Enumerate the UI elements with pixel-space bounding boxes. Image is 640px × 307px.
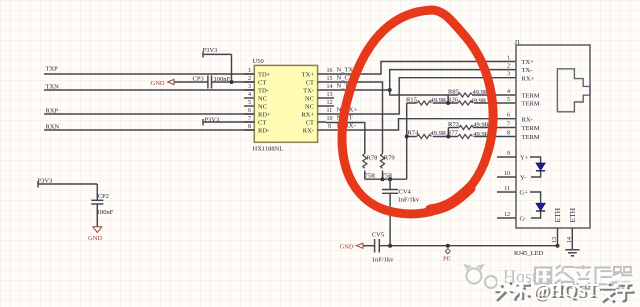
- wire R74 R77 rail to J1 pin8: [407, 136, 516, 138]
- svg-text:1nF/1kv: 1nF/1kv: [398, 196, 420, 203]
- svg-text:CT: CT: [306, 120, 314, 127]
- svg-text:G-: G-: [520, 216, 527, 223]
- svg-text:2: 2: [507, 64, 510, 70]
- watermark text CJK light wang-luo-bian-ya-qi: [535, 265, 634, 291]
- svg-text:4: 4: [248, 92, 251, 98]
- wire RXN: [44, 129, 254, 131]
- svg-text:P3V3: P3V3: [205, 116, 220, 123]
- annotation red circle: [342, 10, 493, 214]
- svg-text:R26: R26: [447, 97, 459, 104]
- svg-text:1: 1: [507, 56, 510, 62]
- resistor labels: [365, 89, 490, 264]
- U50 right pin numbers: [327, 68, 333, 130]
- svg-text:11: 11: [504, 186, 510, 192]
- svg-text:TD+: TD+: [258, 72, 271, 79]
- annotation red tail: [431, 188, 471, 210]
- svg-text:49.9R: 49.9R: [471, 98, 487, 105]
- diode LED yellow: [530, 157, 545, 177]
- svg-text:R74: R74: [407, 129, 419, 136]
- wire R15 R26 rail to J1 pin5: [407, 102, 516, 104]
- resistor R74: [417, 135, 432, 139]
- J1 pin numbers: [504, 56, 510, 219]
- svg-text:RD-: RD-: [258, 128, 269, 135]
- net labels right of U50: [337, 66, 358, 129]
- svg-text:TX-: TX-: [303, 88, 314, 95]
- J1 pin11 stub: [497, 191, 516, 193]
- svg-text:ETH: ETH: [568, 207, 577, 222]
- svg-text:9: 9: [507, 151, 510, 157]
- svg-text:7: 7: [507, 122, 510, 128]
- node x406 R74: [405, 135, 409, 139]
- ground GND arrow bottom-left: [93, 227, 102, 233]
- svg-text:TXP: TXP: [46, 66, 59, 73]
- U50 right pin names: [301, 72, 314, 135]
- svg-text:6: 6: [248, 108, 251, 114]
- glyph wen: [598, 281, 617, 301]
- J1 pin13 lead: [557, 228, 559, 246]
- node R79-bus: [381, 177, 385, 181]
- wire CP3 to pin2: [212, 81, 255, 83]
- svg-text:U50: U50: [253, 58, 264, 65]
- wire pin11 to railC: [326, 78, 516, 114]
- watermark logo cat: [466, 266, 499, 290]
- diode LED green: [530, 192, 545, 218]
- wire RXP: [44, 113, 254, 115]
- power P3V3 top wire: [203, 52, 232, 83]
- wire bottom bus: [365, 178, 407, 180]
- resistor R73: [459, 126, 474, 130]
- svg-text:12: 12: [327, 100, 333, 106]
- wire pin14 to railB: [326, 70, 516, 90]
- wire R78 bottom stub: [364, 171, 366, 180]
- J1 pin10 stub: [497, 176, 516, 178]
- svg-text:P3V3: P3V3: [38, 178, 53, 185]
- svg-text:RX+: RX+: [301, 112, 314, 119]
- J1 pin9 stub: [497, 156, 516, 158]
- connector J1 box: [516, 45, 590, 228]
- svg-text:NC: NC: [305, 104, 314, 111]
- wire pin9 to railD: [326, 119, 516, 130]
- svg-text:R73: R73: [448, 121, 459, 128]
- svg-text:RXP: RXP: [46, 108, 59, 115]
- svg-text:R78: R78: [367, 155, 378, 162]
- svg-text:TX-: TX-: [522, 67, 533, 74]
- svg-text:14: 14: [567, 237, 573, 243]
- svg-text:5: 5: [507, 97, 510, 103]
- svg-text:GND: GND: [340, 244, 354, 251]
- wire GND to CV5: [363, 245, 375, 247]
- svg-text:Y-: Y-: [520, 175, 526, 182]
- svg-text:R85: R85: [448, 89, 459, 96]
- node CV4-bus: [388, 177, 392, 181]
- wire pin15 down R79 column: [326, 82, 383, 154]
- wire TXP: [44, 73, 254, 75]
- svg-text:TXN: TXN: [46, 84, 60, 91]
- svg-text:12: 12: [504, 212, 510, 218]
- node PE: [446, 244, 450, 248]
- svg-text:16: 16: [327, 68, 333, 74]
- svg-text:TX+: TX+: [522, 59, 535, 66]
- svg-text:8: 8: [248, 124, 251, 130]
- resistor R77: [458, 135, 473, 139]
- svg-text:CP3: CP3: [193, 75, 204, 82]
- svg-text:75R: 75R: [382, 173, 394, 180]
- svg-text:P3V3: P3V3: [203, 47, 218, 54]
- glyph tou: [494, 279, 515, 299]
- node pin13: [556, 244, 560, 248]
- RJ45 jack symbol: [557, 69, 590, 112]
- U50 left pin names: [258, 72, 271, 135]
- svg-text:RX-: RX-: [522, 116, 533, 123]
- wire R73 rail to J1 pin7: [448, 127, 516, 129]
- wire vertical R26-R85: [447, 95, 449, 103]
- power P3V3 bottom-left wire: [38, 181, 97, 200]
- svg-text:RX+: RX+: [522, 75, 535, 82]
- svg-text:3: 3: [248, 84, 251, 90]
- watermark dark tou-tiao: [494, 279, 532, 301]
- node pin2-P3V3: [230, 80, 234, 84]
- svg-text:7: 7: [248, 116, 251, 122]
- svg-text:CV4: CV4: [399, 189, 412, 196]
- ground GND arrow top: [168, 79, 174, 84]
- U50 pin4 stub: [244, 97, 254, 99]
- glyph zi: [616, 284, 633, 300]
- svg-text:TERM: TERM: [522, 125, 540, 132]
- svg-text:GND: GND: [88, 235, 102, 242]
- svg-text:49.9R: 49.9R: [473, 122, 489, 129]
- svg-text:100nF: 100nF: [97, 209, 114, 216]
- resistor R78: [363, 154, 367, 169]
- svg-text:15: 15: [327, 76, 333, 82]
- node R74-R77: [446, 135, 450, 139]
- svg-text:11: 11: [327, 108, 333, 114]
- svg-text:1nF/1kv: 1nF/1kv: [372, 256, 394, 263]
- svg-text:R79: R79: [384, 155, 395, 162]
- svg-text:RJ45_LED: RJ45_LED: [514, 250, 544, 257]
- J1 pin names: [520, 59, 540, 223]
- svg-text:TERM: TERM: [522, 101, 540, 108]
- svg-text:5: 5: [248, 100, 251, 106]
- wire vertical R73-R74: [447, 128, 449, 137]
- svg-text:J1: J1: [515, 39, 521, 46]
- glyph tiao: [514, 280, 530, 298]
- capacitor CP3: [208, 76, 212, 89]
- capacitor CV5: [375, 239, 380, 253]
- J1 pin12 stub: [497, 217, 516, 219]
- svg-text:13: 13: [552, 237, 558, 243]
- svg-text:GND: GND: [151, 80, 165, 87]
- svg-text:CT: CT: [258, 80, 266, 87]
- wire pin16 to railA: [326, 62, 516, 75]
- wire GND to CP3: [174, 81, 208, 83]
- svg-text:NC: NC: [305, 96, 314, 103]
- svg-text:CP2: CP2: [98, 193, 109, 200]
- svg-text:TERM: TERM: [522, 134, 540, 141]
- svg-text:9: 9: [328, 124, 331, 130]
- wire common vertical x406.7: [406, 103, 408, 179]
- svg-text:R15: R15: [406, 97, 417, 104]
- svg-text:HX1188NL: HX1188NL: [253, 145, 284, 152]
- svg-text:RD+: RD+: [258, 112, 271, 119]
- resistor R79: [381, 154, 385, 169]
- svg-text:14: 14: [327, 84, 333, 90]
- resistor R26: [458, 101, 473, 105]
- svg-text:100nF: 100nF: [214, 76, 231, 83]
- svg-text:@HQST: @HQST: [533, 280, 598, 300]
- op IC U50 body: [254, 65, 317, 142]
- svg-text:1: 1: [248, 68, 251, 74]
- svg-text:TERM: TERM: [522, 93, 540, 100]
- U50 right pin leads: [318, 74, 334, 130]
- svg-text:CT: CT: [306, 80, 314, 87]
- svg-text:6: 6: [507, 113, 510, 119]
- node R15-R26: [446, 101, 450, 105]
- node pin14-railB: [388, 88, 392, 92]
- wire pin10 down R78 column: [326, 123, 365, 154]
- svg-text:13: 13: [327, 92, 333, 98]
- capacitor CP2: [91, 200, 103, 226]
- svg-text:TD-: TD-: [258, 88, 269, 95]
- svg-text:RXN: RXN: [46, 124, 60, 131]
- resistor R15: [417, 101, 432, 105]
- svg-text:PE: PE: [443, 255, 451, 262]
- svg-text:Y+: Y+: [520, 155, 529, 162]
- wire CV4 column: [389, 179, 391, 246]
- svg-text:NC: NC: [258, 104, 267, 111]
- wire CV5 to J1 pin13: [379, 245, 557, 247]
- svg-text:2: 2: [248, 76, 251, 82]
- svg-text:TX+: TX+: [302, 72, 315, 79]
- svg-text:8: 8: [507, 130, 510, 136]
- svg-text:10: 10: [504, 171, 510, 177]
- svg-text:CV5: CV5: [372, 232, 384, 239]
- svg-text:CT: CT: [258, 120, 266, 127]
- svg-text:49.9R: 49.9R: [431, 130, 447, 137]
- wire rail R85 to J1 pin4: [390, 90, 516, 95]
- ground earth pin14: [565, 250, 579, 256]
- svg-text:RX-: RX-: [303, 128, 314, 135]
- U50 left pin leads: [244, 74, 254, 130]
- svg-text:ETH: ETH: [553, 207, 562, 222]
- J1 pin14 lead: [571, 228, 573, 249]
- node CV4-CV5: [388, 244, 392, 248]
- svg-text:R77: R77: [447, 129, 459, 136]
- capacitor CV4: [382, 190, 398, 194]
- svg-text:3: 3: [507, 72, 510, 78]
- ground GND arrow at CV5: [357, 243, 364, 248]
- wire R79 bottom stub: [382, 171, 384, 180]
- wire TXN: [44, 89, 254, 91]
- resistor R85: [458, 93, 473, 97]
- svg-text:10: 10: [327, 116, 333, 122]
- power P3V3 pin7 wire: [203, 119, 254, 126]
- power PE diamond: [445, 249, 450, 254]
- svg-text:G+: G+: [520, 190, 529, 197]
- svg-text:NC: NC: [258, 96, 267, 103]
- U50 pin numbers 1-8: [248, 68, 251, 130]
- svg-text:4: 4: [507, 89, 510, 95]
- watermark dark wen-zi: [598, 281, 635, 303]
- U50 pin5 stub: [244, 105, 254, 107]
- svg-text:75R: 75R: [365, 173, 377, 180]
- svg-text:49.9R: 49.9R: [431, 97, 447, 104]
